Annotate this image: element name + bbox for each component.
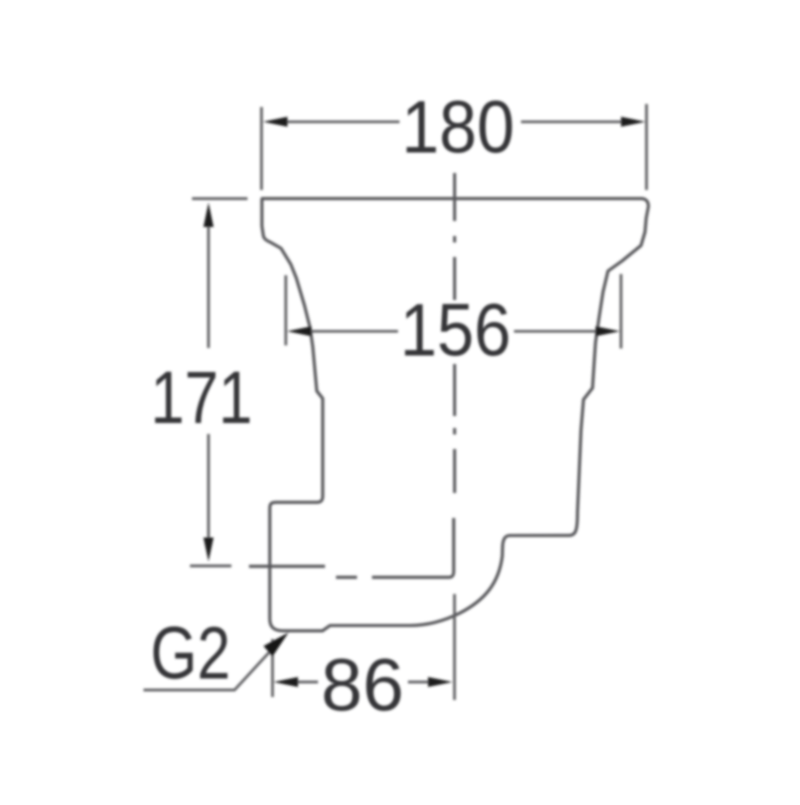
svg-text:G2: G2 bbox=[151, 612, 231, 695]
svg-text:180: 180 bbox=[402, 86, 515, 169]
svg-text:156: 156 bbox=[400, 289, 511, 372]
svg-text:86: 86 bbox=[321, 644, 404, 727]
svg-text:171: 171 bbox=[151, 356, 253, 439]
